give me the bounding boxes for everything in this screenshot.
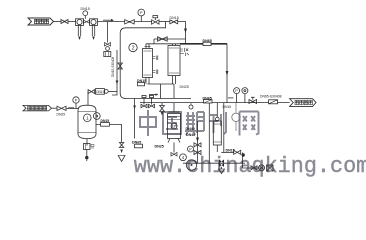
svg-text:DN25: DN25	[57, 113, 66, 117]
banner2 text chars	[295, 100, 312, 104]
wire feed line	[54, 21, 62, 23]
vessel V3 drain	[173, 143, 175, 153]
flow arrow on drop	[133, 106, 136, 110]
filter F1	[76, 19, 84, 40]
vertical line left loop	[120, 33, 126, 99]
wire main line	[98, 21, 125, 23]
vent line vertical	[112, 50, 117, 95]
vent valve v	[119, 143, 123, 148]
flow dash	[228, 97, 233, 99]
wire	[66, 107, 79, 109]
banner product out	[290, 99, 316, 107]
svg-text:DN40: DN40	[186, 127, 195, 131]
banner feed gas (top left)	[28, 18, 54, 25]
banner1 text chars	[35, 19, 49, 23]
blower circle-x	[259, 165, 265, 171]
valve V2	[84, 20, 90, 23]
valve V6 on vertical	[118, 63, 122, 69]
flow arrow down	[184, 29, 187, 34]
flow arrow down	[226, 71, 229, 76]
wire	[52, 107, 58, 109]
valve V8	[194, 151, 201, 155]
gauge P1	[138, 9, 145, 21]
header line thick	[180, 43, 227, 45]
flow arrow	[103, 19, 111, 21]
valve with handle	[249, 97, 257, 103]
dot valve	[85, 156, 88, 159]
svg-text:1: 1	[86, 116, 89, 121]
trap instrument circle	[106, 47, 110, 51]
angle valve with down arrow	[160, 103, 165, 116]
flow arrow on L1	[149, 94, 156, 96]
svg-text:P: P	[75, 99, 78, 103]
wire corner down	[178, 22, 186, 44]
towers bottom manifold	[148, 83, 175, 85]
tower T1 (left)	[143, 44, 153, 84]
watermark 刊	[209, 112, 226, 134]
V1 right outlet	[96, 123, 122, 125]
valve V10	[251, 166, 257, 170]
wire	[134, 21, 151, 23]
svg-text:P: P	[235, 89, 238, 93]
watermark 网	[240, 112, 259, 136]
wire drop x223.8	[223, 103, 225, 153]
wire T1 bottom to L1	[160, 84, 162, 99]
svg-text:P: P	[189, 148, 192, 152]
svg-text:P: P	[140, 10, 143, 15]
instrument circle below product line	[232, 113, 240, 121]
circled 3	[171, 123, 177, 129]
manifold wire L1	[126, 98, 191, 100]
circled 2	[129, 43, 137, 51]
valve V4	[170, 20, 178, 24]
drain trap box	[84, 144, 95, 150]
V1 bottom drain	[86, 139, 88, 146]
valve V5	[158, 37, 168, 41]
bypass wire lower	[154, 39, 186, 44]
wire	[159, 21, 170, 23]
svg-text:DN40: DN40	[186, 133, 195, 137]
gauge P3 on V1	[93, 113, 100, 120]
wire down	[243, 153, 265, 169]
manifold wire L2	[140, 102, 227, 104]
branch to drain trap	[107, 22, 109, 43]
valve V7	[194, 143, 201, 147]
flow dash	[68, 107, 74, 109]
instrument on manifold	[189, 105, 193, 109]
watermark 期	[185, 112, 204, 135]
flow arrow	[196, 138, 199, 143]
wire T2 bottom	[173, 84, 175, 98]
inline reducer box	[269, 100, 278, 104]
wire right drop	[226, 44, 228, 103]
svg-text:DN65-S30408: DN65-S30408	[260, 95, 282, 99]
T2 side taps	[180, 48, 188, 52]
svg-text:DN15: DN15	[223, 105, 232, 109]
bypass wire upper	[126, 22, 166, 28]
actuated valve pair	[141, 95, 147, 107]
svg-text:DN15: DN15	[96, 90, 104, 94]
product gauges	[234, 88, 240, 103]
vessel V3 (regen)	[168, 103, 181, 143]
control valve CV1	[152, 16, 159, 25]
box-x end	[267, 165, 274, 171]
vessel V1	[78, 105, 96, 138]
flare funnel	[118, 156, 125, 162]
dot valve	[242, 153, 245, 156]
banner3 text chars	[28, 106, 47, 110]
vent tag box	[96, 89, 105, 95]
wire	[221, 152, 233, 154]
vent valve	[88, 90, 95, 94]
outlet tag label and box	[101, 119, 110, 126]
flow arrow down on vent	[116, 81, 119, 85]
svg-text:DN15-S30408: DN15-S30408	[111, 57, 115, 77]
svg-text:DN25: DN25	[155, 144, 164, 148]
orifice box on header	[203, 42, 211, 45]
valve V3	[125, 20, 135, 24]
svg-text:DN15: DN15	[81, 7, 90, 11]
watermark 国	[163, 112, 181, 134]
vent from V1 top	[87, 92, 89, 105]
bottom drain wire	[183, 162, 245, 164]
drop to DN65 tag	[134, 99, 136, 139]
T1 side taps	[153, 56, 158, 61]
valve V9	[234, 150, 241, 154]
instrument circle on drain	[186, 160, 196, 170]
svg-text:DN25: DN25	[180, 85, 189, 89]
circled 1	[84, 114, 92, 122]
dark angle valve	[219, 160, 224, 167]
arrow down	[120, 150, 123, 154]
product line	[227, 102, 290, 104]
circled 4	[180, 154, 187, 161]
funnel drain	[219, 167, 225, 174]
thin column C5	[213, 103, 221, 152]
wire	[86, 150, 88, 157]
header line	[146, 43, 180, 45]
wire	[68, 21, 76, 23]
watermark 中	[140, 110, 156, 136]
valve V1	[61, 20, 68, 24]
gauge P4	[188, 146, 194, 152]
tower T2 (right)	[168, 44, 180, 84]
svg-text:2: 2	[132, 45, 135, 51]
svg-text:www.chinaqking.com: www.chinaqking.com	[134, 154, 366, 179]
filter F2	[90, 19, 98, 40]
gauge P2	[73, 97, 79, 109]
wire valve stack	[197, 121, 199, 163]
vent branch down right of V1	[121, 124, 123, 142]
trap box	[104, 52, 111, 57]
trap valve	[105, 43, 111, 47]
banner regen feed (bottom left)	[23, 105, 52, 111]
rounded corner to vertical	[120, 28, 126, 33]
vent instrument circle	[104, 90, 108, 94]
wire drop x209	[208, 103, 210, 164]
instrument above F2	[83, 11, 88, 19]
valve V11	[57, 106, 66, 110]
